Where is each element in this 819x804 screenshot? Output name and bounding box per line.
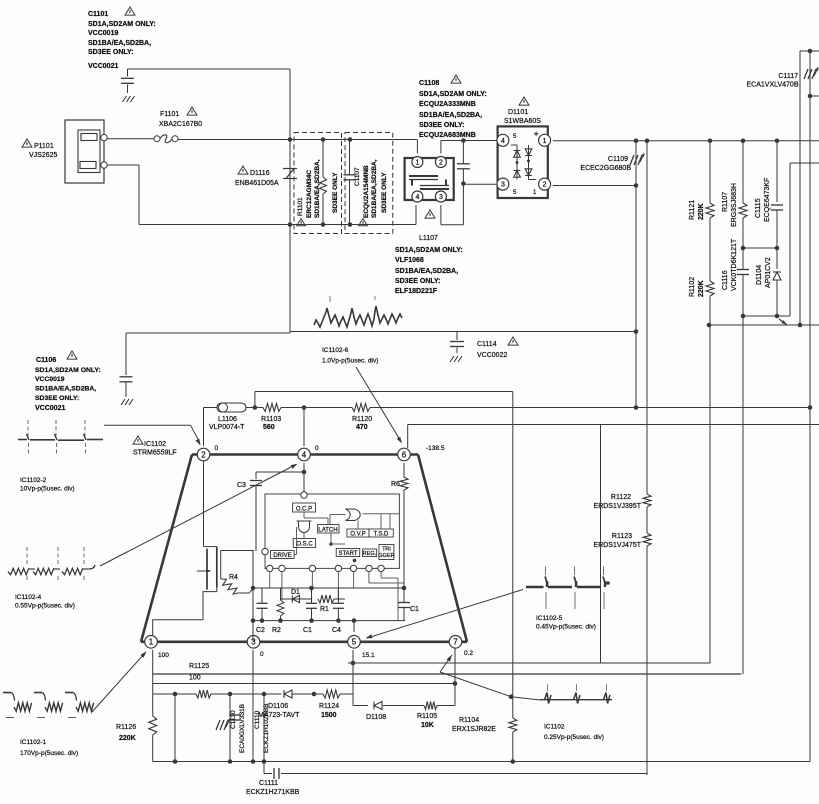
wire pin3 down — [252, 650, 254, 762]
svg-text:560: 560 — [263, 424, 275, 431]
svg-text:220K: 220K — [698, 203, 705, 220]
svg-text:R1120: R1120 — [352, 416, 372, 423]
svg-text:SD1A,SD2AM ONLY:: SD1A,SD2AM ONLY: — [88, 21, 156, 28]
svg-text:0.2: 0.2 — [464, 650, 473, 657]
hybrid IC U IC1102 outline — [192, 453, 418, 456]
pin 3 — [247, 636, 260, 649]
svg-text:IC1102: IC1102 — [544, 724, 565, 731]
resistor R4 — [221, 550, 254, 552]
resistor R1105 — [424, 702, 437, 710]
MOSFET Q1 interior — [203, 461, 205, 547]
resistor R1 interior — [318, 595, 334, 603]
capacitor C1107 labels — [359, 219, 368, 226]
wire interior row2 — [253, 620, 405, 622]
wire DC rail from bridge pin1 — [553, 140, 819, 142]
wire pin5 interior — [353, 621, 355, 632]
waveform IC1102-2 — [18, 439, 27, 441]
wire pin5 line — [352, 650, 354, 663]
svg-text:SD1BA/EA,SD2BA,: SD1BA/EA,SD2BA, — [419, 112, 482, 119]
svg-text:ERC12AGM34C: ERC12AGM34C — [306, 170, 313, 218]
svg-text:F1101: F1101 — [160, 111, 179, 118]
resistor R1120 — [352, 404, 370, 412]
wire pin2 net — [203, 408, 205, 447]
svg-text:C1116: C1116 — [722, 270, 729, 290]
svg-text:ECA0GXLV331B: ECA0GXLV331B — [239, 704, 246, 753]
svg-text:C2: C2 — [256, 627, 265, 634]
block DRIVE — [271, 551, 295, 559]
wire chassis net — [289, 225, 291, 334]
svg-text:STRM6559LF: STRM6559LF — [133, 450, 177, 457]
svg-text:220K: 220K — [698, 280, 705, 297]
svg-text:D1116: D1116 — [250, 170, 270, 177]
svg-text:C1: C1 — [410, 606, 419, 613]
capacitor C1107 — [349, 140, 351, 176]
svg-text:R2: R2 — [272, 627, 281, 634]
svg-text:IC1102-4: IC1102-4 — [15, 594, 42, 601]
svg-text:LATCH: LATCH — [318, 528, 337, 534]
pin 4 — [298, 448, 311, 461]
svg-text:IC1102-5: IC1102-5 — [536, 615, 563, 622]
inductor L1106 — [217, 403, 246, 412]
wire C1116 down to bottom loop — [742, 316, 744, 674]
inner pins — [262, 548, 268, 554]
waveform IC1102-1 — [3, 692, 11, 694]
waveform IC1102-5 — [526, 586, 544, 588]
resistor R1101 — [322, 140, 324, 178]
capacitor C1101 — [127, 69, 129, 77]
svg-text:VCC0021: VCC0021 — [35, 405, 65, 412]
svg-text:VCC0021: VCC0021 — [88, 63, 118, 70]
svg-text:7: 7 — [453, 638, 458, 647]
leader to pin 4 — [100, 465, 296, 567]
pin 7 — [449, 636, 462, 649]
svg-text:D1104: D1104 — [756, 265, 763, 285]
svg-text:R1126: R1126 — [116, 724, 136, 731]
svg-text:IC1102: IC1102 — [144, 441, 166, 448]
svg-text:ECQU2A154MNB: ECQU2A154MNB — [363, 165, 370, 218]
block OCP — [293, 503, 316, 512]
svg-text:S1WBA60S: S1WBA60S — [504, 118, 541, 125]
svg-text:SD3EE ONLY:: SD3EE ONLY: — [419, 122, 465, 129]
svg-text:ERX1SJR82E: ERX1SJR82E — [452, 726, 496, 733]
svg-text:4: 4 — [302, 450, 307, 459]
waveform IC1102-6 — [314, 306, 402, 327]
wire line2 — [153, 673, 742, 675]
svg-text:100: 100 — [189, 675, 201, 682]
svg-text:ELF18D221F: ELF18D221F — [395, 288, 438, 295]
svg-text:C1: C1 — [303, 627, 312, 634]
wire startup net — [254, 392, 256, 408]
block REG — [362, 549, 376, 557]
svg-text:VCC0022: VCC0022 — [477, 352, 507, 359]
wire hot from P1101 — [107, 138, 154, 140]
svg-text:P1101: P1101 — [34, 143, 54, 150]
resistor R1101 labels — [297, 219, 306, 226]
wire pin6 feed line — [408, 424, 819, 426]
block START — [336, 549, 360, 557]
svg-text:15.1: 15.1 — [362, 652, 375, 659]
svg-text:0.55Vp-p(5usec. div): 0.55Vp-p(5usec. div) — [15, 603, 75, 610]
svg-text:R1104: R1104 — [459, 717, 479, 724]
connector P1101 — [65, 120, 104, 183]
diode D1106 — [284, 690, 292, 698]
svg-text:VLF1068: VLF1068 — [395, 257, 424, 264]
svg-text:D1101: D1101 — [508, 109, 528, 116]
wire rail R1122 branch — [646, 141, 648, 494]
pin 5 — [348, 636, 361, 649]
waveform IC1102 0.25V — [540, 699, 612, 701]
line filter L1107 — [405, 158, 454, 200]
svg-text:VCC0019: VCC0019 — [35, 376, 65, 383]
svg-text:R1125: R1125 — [189, 663, 209, 670]
svg-text:C1108: C1108 — [419, 80, 439, 87]
block LATCH — [318, 525, 339, 534]
surge absorber D1116 — [289, 140, 291, 225]
svg-text:D1: D1 — [291, 589, 300, 596]
capacitor C1117 — [804, 69, 808, 79]
wire L1107 pin3 to bridge pin3 — [440, 205, 442, 225]
gate 1 — [299, 521, 310, 533]
resistor R1122 — [643, 494, 651, 507]
svg-text:C1111: C1111 — [259, 780, 278, 787]
wire interior row1 — [252, 551, 254, 641]
wire R1103 to R1120 — [281, 407, 352, 409]
ground for C1101 — [123, 96, 127, 102]
svg-text:ECEC2GG680B: ECEC2GG680B — [580, 165, 631, 172]
svg-text:170Vp-p(5usec. div): 170Vp-p(5usec. div) — [20, 750, 78, 757]
capacitor C2 interior — [261, 588, 263, 603]
svg-text:5: 5 — [352, 638, 357, 647]
svg-text:SD1BA/EA,SD2BA,: SD1BA/EA,SD2BA, — [371, 159, 378, 218]
svg-text:1: 1 — [543, 138, 547, 145]
line filter L1107 labels — [425, 210, 435, 218]
svg-text:R1103: R1103 — [261, 416, 281, 423]
wire main line to right rail — [370, 407, 810, 409]
svg-text:R1: R1 — [320, 606, 329, 613]
capacitor C1 interior — [311, 588, 313, 603]
wire R1121 to R1102 — [709, 218, 711, 281]
svg-text:R1105: R1105 — [417, 713, 437, 720]
svg-text:C3: C3 — [237, 482, 246, 489]
wire pin5 to subrow — [352, 663, 354, 706]
svg-text:C1106: C1106 — [36, 357, 56, 364]
svg-text:R1101: R1101 — [297, 197, 304, 216]
capacitor C3 — [256, 471, 304, 473]
wire pin4 stub — [303, 408, 305, 447]
capacitor C1107 option box — [345, 133, 393, 234]
diode D1104 — [776, 248, 778, 269]
wire R1123 down to bottom loop — [646, 546, 648, 775]
svg-text:REG.: REG. — [363, 551, 377, 557]
svg-text:VJS2625: VJS2625 — [29, 152, 58, 159]
svg-text:100: 100 — [158, 652, 169, 659]
wire hot to L1107 pin1 — [416, 140, 418, 154]
svg-text:C4: C4 — [332, 627, 341, 634]
capacitor C1111 — [263, 762, 265, 774]
leader to pin 2 — [104, 424, 191, 426]
bridge rectifier D1101 label — [519, 97, 529, 105]
pin 1 — [145, 636, 158, 649]
resistor R1107 — [742, 141, 744, 203]
svg-text:C1114: C1114 — [477, 341, 497, 348]
inner pin stubs — [269, 572, 271, 588]
svg-text:SD1A,SD2AM ONLY:: SD1A,SD2AM ONLY: — [35, 367, 101, 374]
capacitor C1108 — [462, 141, 464, 165]
svg-text:VLP0074-T: VLP0074-T — [209, 424, 245, 431]
svg-text:START: START — [338, 551, 357, 557]
svg-text:ECQE6473KF: ECQE6473KF — [764, 178, 771, 222]
svg-text:ECQU2A333MNB: ECQU2A333MNB — [419, 101, 476, 108]
IC1102 label — [133, 436, 143, 444]
wire pin4 into IC — [303, 463, 305, 494]
svg-text:2: 2 — [543, 182, 547, 189]
svg-text:XBA2C167B0: XBA2C167B0 — [159, 121, 202, 128]
svg-text:R1122: R1122 — [611, 494, 631, 501]
svg-text:2: 2 — [439, 160, 443, 167]
svg-text:ECKZ1H271KBB: ECKZ1H271KBB — [246, 789, 300, 796]
svg-text:470: 470 — [356, 424, 368, 431]
svg-text:VCC0019: VCC0019 — [88, 30, 118, 37]
wire right stub — [789, 163, 791, 316]
svg-text:R1107: R1107 — [722, 192, 729, 212]
svg-text:10K: 10K — [421, 722, 434, 729]
bottom rail — [153, 761, 810, 763]
svg-text:SD1A,SD2AM ONLY:: SD1A,SD2AM ONLY: — [419, 91, 487, 98]
wire from bridge pin2 — [553, 185, 636, 187]
svg-text:1: 1 — [149, 638, 154, 647]
capacitor C1114 — [456, 332, 458, 341]
resistor R1101 option box — [294, 133, 342, 234]
svg-text:SD3EE ONLY:: SD3EE ONLY: — [35, 395, 79, 402]
resistor R1121 — [709, 141, 711, 203]
capacitor C1130 — [174, 694, 176, 762]
svg-text:O.S.C: O.S.C — [296, 542, 313, 548]
wire source to pin1 — [153, 588, 217, 635]
pin 6 — [398, 448, 411, 461]
svg-text:SD1BA/EA,SD2BA,: SD1BA/EA,SD2BA, — [35, 386, 96, 393]
leader to pin 1 — [92, 653, 145, 712]
capacitor C1110 — [229, 694, 231, 762]
svg-text:1: 1 — [415, 160, 419, 167]
leader to pin 5 — [367, 590, 523, 639]
wire pin7 net — [454, 649, 456, 684]
bridge rectifier D1101 — [498, 126, 548, 198]
svg-text:R1121: R1121 — [689, 200, 696, 220]
wire L1106 to R1103 — [246, 407, 263, 409]
bridge diodes — [516, 145, 518, 180]
resistor R1103 — [263, 404, 281, 412]
connector P1101 label — [22, 139, 32, 147]
resistor R1124 — [323, 690, 340, 698]
gate 2 OR — [346, 509, 361, 521]
svg-text:ENB461D05A: ENB461D05A — [235, 180, 279, 187]
resistor R6 — [403, 463, 405, 477]
svg-text:R4: R4 — [229, 574, 238, 581]
row3 wire — [153, 693, 175, 695]
wire C1115 C1116 tie — [743, 247, 777, 249]
wire L1107 pin4 to neutral — [415, 205, 417, 225]
wire R1104 branch — [512, 425, 514, 719]
svg-text:1.0Vp-p(5usec. div): 1.0Vp-p(5usec. div) — [322, 358, 378, 365]
svg-text:SD1BA/EA,SD2BA,: SD1BA/EA,SD2BA, — [314, 159, 321, 218]
svg-text:VCK0TD6K121T: VCK0TD6K121T — [731, 238, 738, 291]
svg-text:R1102: R1102 — [689, 277, 696, 297]
ground for C1106 — [121, 399, 125, 405]
wire pin1 down — [152, 650, 154, 694]
svg-text:2: 2 — [201, 450, 206, 459]
surge absorber D1116 label — [238, 166, 248, 174]
svg-text:10Vp-p(5usec. div): 10Vp-p(5usec. div) — [20, 486, 75, 493]
svg-text:SD1A,SD2AM ONLY:: SD1A,SD2AM ONLY: — [395, 247, 463, 254]
svg-text:R1124: R1124 — [319, 703, 339, 710]
svg-text:220K: 220K — [119, 735, 136, 742]
leader to pin 6 — [356, 367, 401, 442]
svg-text:C1109: C1109 — [608, 156, 628, 163]
capacitor C1 right interior — [403, 588, 405, 602]
wire R1102 down to bottom loop — [709, 296, 711, 663]
svg-text:C1107: C1107 — [354, 167, 361, 186]
svg-text:ERG3SJ683H: ERG3SJ683H — [731, 183, 738, 227]
svg-text:IC1102-2: IC1102-2 — [20, 477, 47, 484]
capacitor C1116 — [742, 248, 744, 269]
IC1102 inner block — [265, 494, 399, 568]
pin 2 — [197, 448, 210, 461]
svg-text:SD3EE ONLY: SD3EE ONLY — [381, 172, 388, 213]
interior connections — [303, 512, 305, 518]
svg-text:-138.5: -138.5 — [426, 445, 445, 452]
svg-text:DRIVE: DRIVE — [273, 553, 291, 559]
wire right edge rail — [799, 51, 801, 325]
svg-text:T.S.D: T.S.D — [374, 532, 389, 538]
svg-text:C1101: C1101 — [88, 11, 108, 18]
wire hot rail left — [178, 139, 417, 141]
wire L1107 pin2 to C1108 — [440, 141, 442, 154]
svg-text:D1106: D1106 — [268, 703, 288, 710]
capacitor C1106 — [125, 333, 127, 375]
svg-text:4: 4 — [501, 138, 505, 145]
resistor R1125 — [196, 690, 211, 698]
svg-text:GGER: GGER — [378, 553, 394, 559]
svg-text:O.V.P: O.V.P — [350, 532, 365, 538]
resistor R2 interior — [280, 588, 282, 600]
svg-text:3: 3 — [501, 182, 505, 189]
svg-text:0: 0 — [315, 445, 319, 452]
svg-text:IC1102-6: IC1102-6 — [322, 347, 349, 354]
resistor R1102 — [706, 281, 714, 296]
svg-text:3: 3 — [251, 638, 256, 647]
svg-text:D1108: D1108 — [366, 714, 386, 721]
waveform IC1102-4 — [8, 568, 29, 574]
wire between R1122 R1123 — [646, 507, 648, 533]
capacitor C1115 — [776, 141, 778, 202]
wire C1101 to hot rail — [128, 68, 291, 70]
svg-text:L1106: L1106 — [218, 416, 237, 423]
svg-text:C1110: C1110 — [254, 710, 261, 729]
svg-text:SD3EE ONLY:: SD3EE ONLY: — [395, 278, 441, 285]
svg-text:0.25Vp-p(5usec. div): 0.25Vp-p(5usec. div) — [544, 734, 604, 741]
capacitor C4 interior — [337, 588, 339, 603]
svg-text:0: 0 — [260, 651, 264, 658]
block OSC — [293, 539, 315, 548]
wire D1104 tie — [743, 315, 790, 317]
svg-text:0.45Vp-p(5usec. div): 0.45Vp-p(5usec. div) — [536, 624, 596, 631]
svg-text:+: + — [534, 129, 539, 139]
wire mid column — [263, 694, 265, 762]
leader to pin 7 — [509, 694, 514, 699]
svg-text:C1115: C1115 — [755, 198, 762, 218]
capacitor C1109 — [635, 141, 637, 186]
svg-text:SD1BA/EA,SD2BA,: SD1BA/EA,SD2BA, — [88, 40, 151, 47]
svg-text:IC1102-1: IC1102-1 — [20, 739, 47, 746]
resistor R1126 — [152, 694, 154, 716]
svg-text:0: 0 — [215, 445, 219, 452]
svg-text:O.C.P: O.C.P — [296, 507, 312, 513]
svg-text:SD3EE ONLY:: SD3EE ONLY: — [88, 49, 134, 56]
svg-text:TRI: TRI — [382, 547, 391, 553]
svg-text:L1107: L1107 — [419, 235, 438, 242]
svg-text:SD3EE ONLY: SD3EE ONLY — [332, 172, 339, 213]
fuse F1101 — [154, 136, 160, 142]
svg-text:R6: R6 — [391, 481, 400, 488]
svg-text:R1123: R1123 — [612, 533, 632, 540]
resistor R1104 — [509, 718, 517, 732]
subrow D1108 R1105 — [353, 705, 368, 707]
svg-text:3: 3 — [439, 194, 443, 201]
svg-text:4: 4 — [415, 194, 419, 201]
wire neutral from P1101 — [107, 164, 139, 166]
wire branch x600 — [600, 425, 602, 664]
svg-text:ECA1VXLV470B: ECA1VXLV470B — [746, 82, 798, 89]
svg-text:1500: 1500 — [321, 712, 337, 719]
svg-text:ECQU2A683MNB: ECQU2A683MNB — [419, 132, 476, 139]
block OVP TSD — [347, 529, 369, 537]
svg-text:AP01CV2: AP01CV2 — [765, 257, 772, 288]
svg-text:C1117: C1117 — [778, 73, 798, 80]
svg-text:6: 6 — [402, 450, 407, 459]
svg-text:SD1BA/EA,SD2BA,: SD1BA/EA,SD2BA, — [395, 268, 458, 275]
block TRIGGER — [379, 545, 394, 560]
resistor R1123 — [643, 533, 651, 546]
